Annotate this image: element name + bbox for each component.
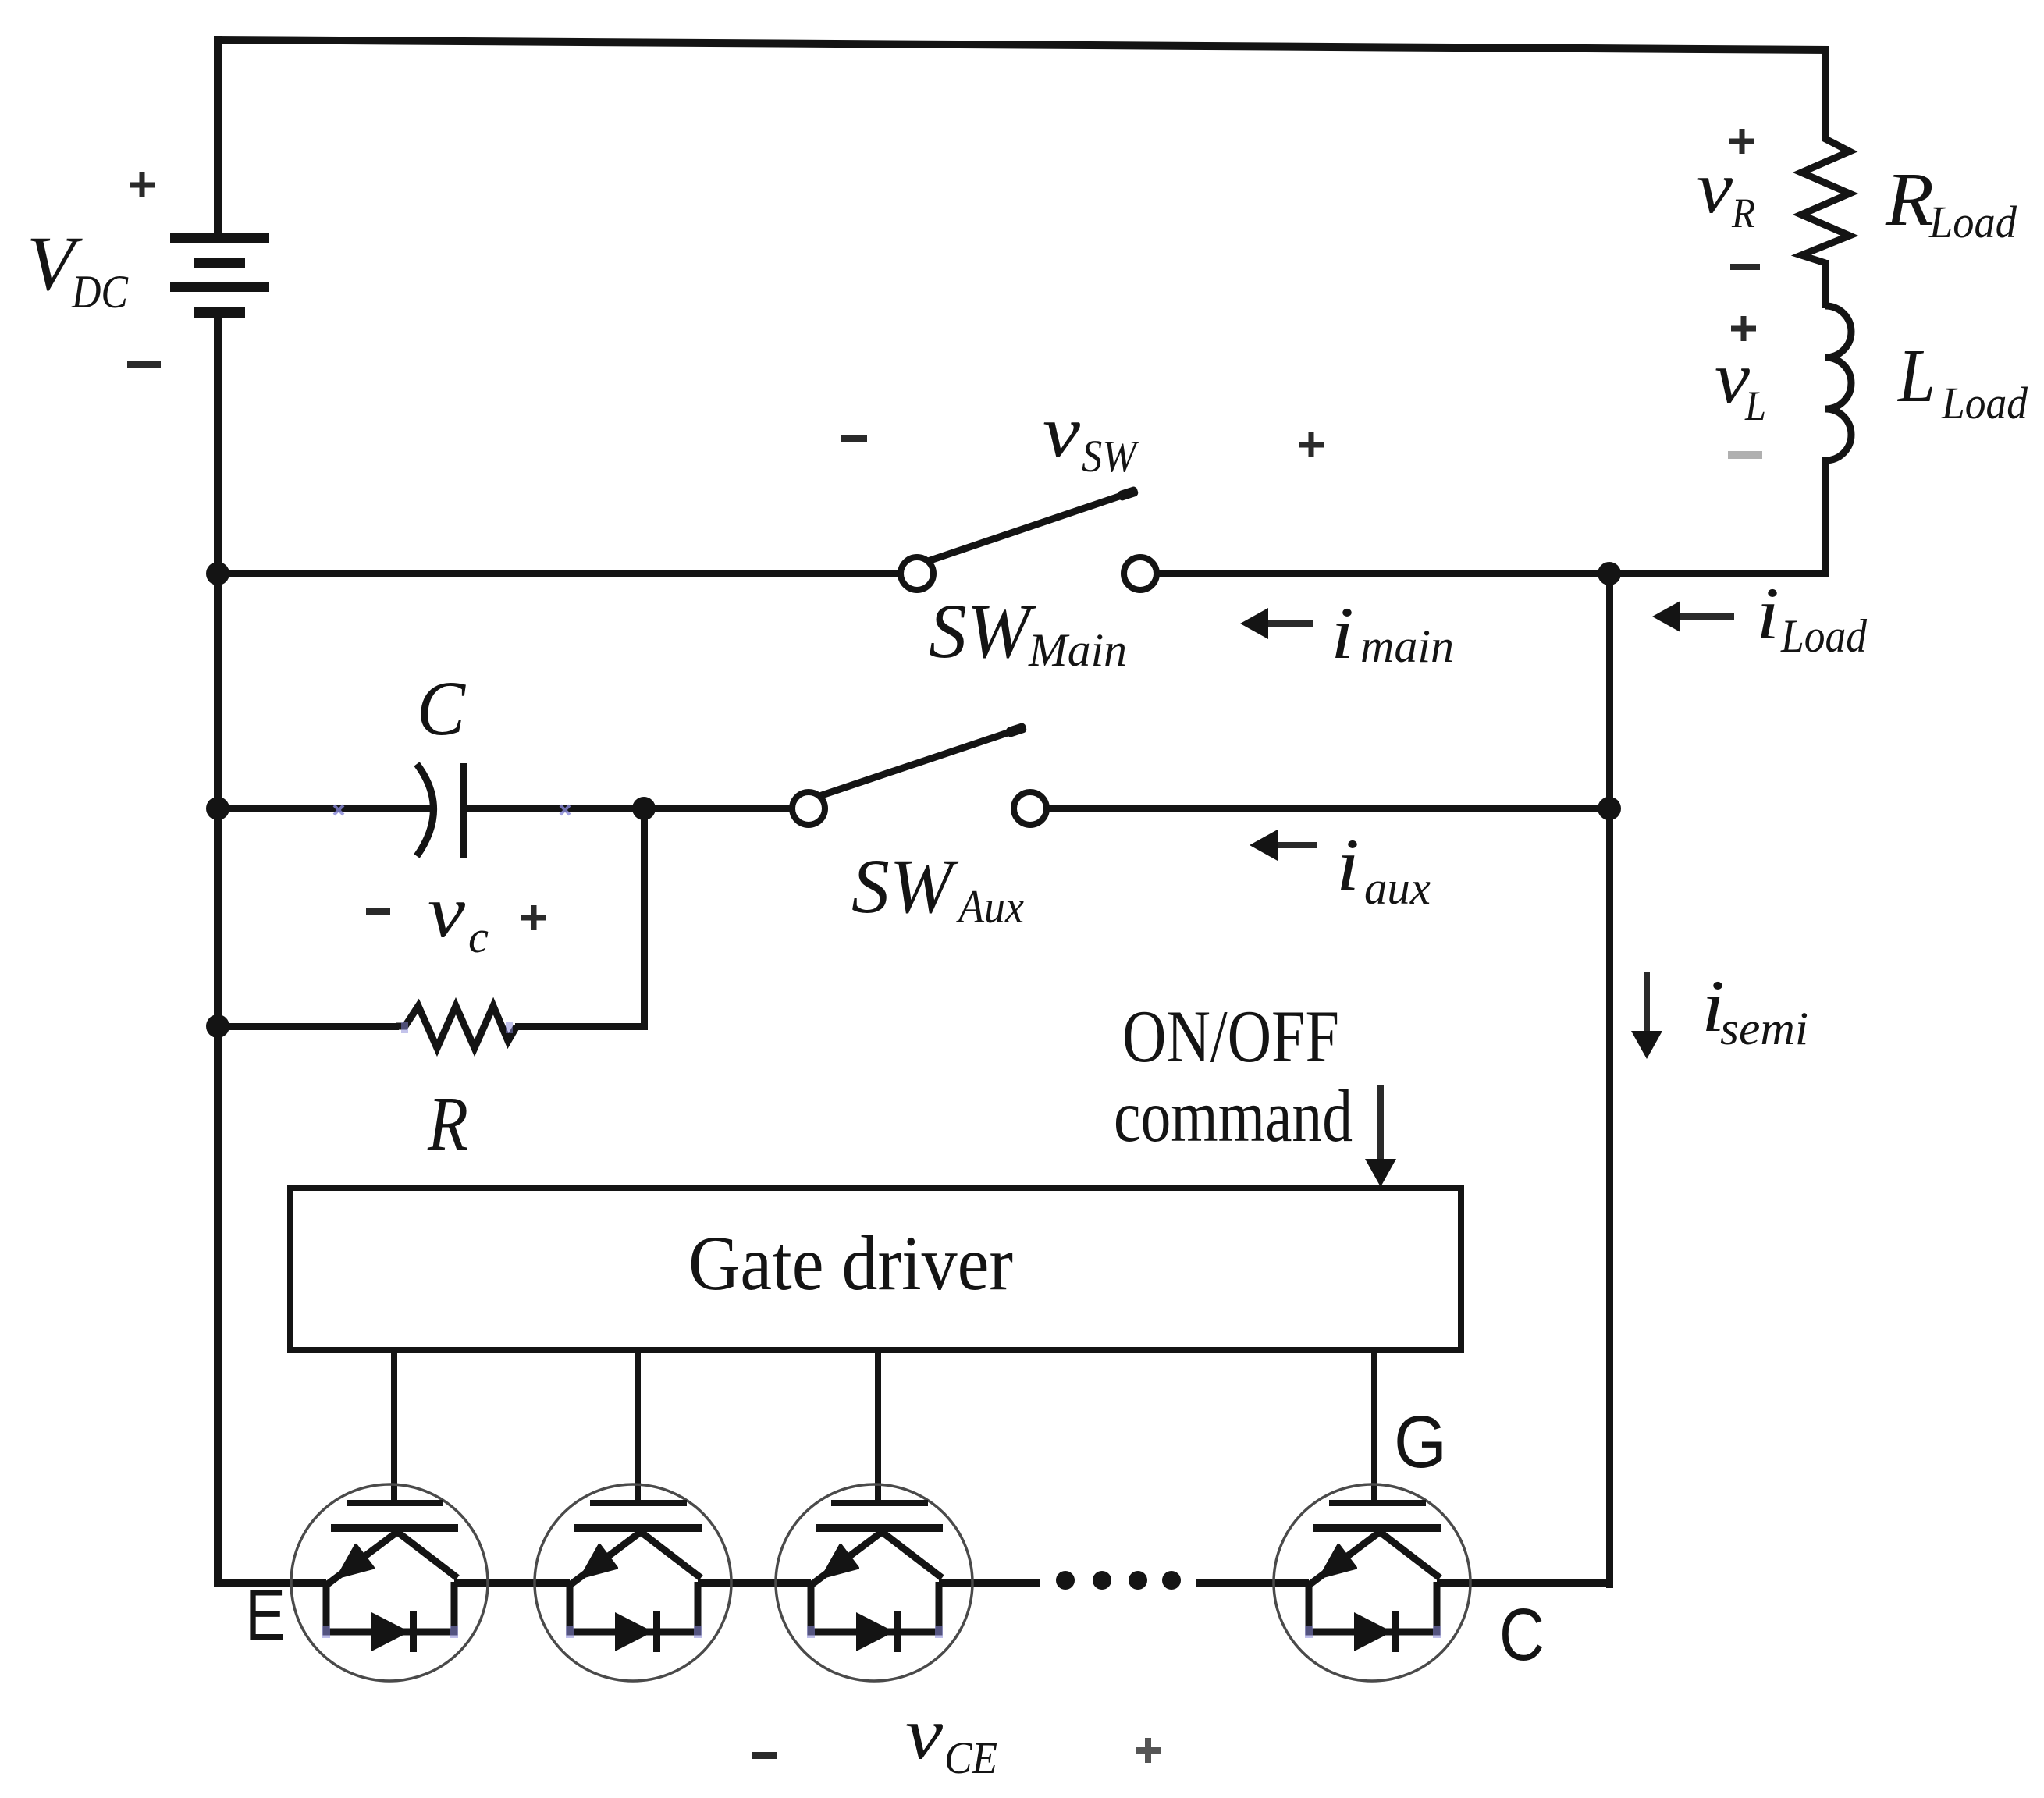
wire cap row left bbox=[214, 805, 435, 812]
svg-text:Load: Load bbox=[1928, 197, 2017, 247]
wire right load drop bbox=[1822, 46, 1829, 137]
svg-text:i: i bbox=[1756, 572, 1779, 655]
switch SWMain bbox=[901, 485, 1157, 590]
svg-text:i: i bbox=[1336, 823, 1360, 906]
wire bottom rail segment 5 bbox=[1196, 1579, 1309, 1587]
svg-text:v: v bbox=[905, 1692, 944, 1775]
wire bottom rail segment 2 bbox=[454, 1579, 570, 1587]
svg-text:R: R bbox=[1731, 190, 1755, 236]
transistor Q4 bbox=[1274, 1484, 1470, 1681]
label plus vc bbox=[521, 905, 546, 930]
artifact mark R left lead bbox=[401, 1022, 408, 1033]
label minus vR bbox=[1730, 264, 1760, 270]
label minus vL bbox=[1728, 451, 1762, 459]
svg-text:CE: CE bbox=[944, 1732, 997, 1783]
wire bottom rail segment 3 bbox=[698, 1579, 811, 1587]
node junction SWMain-left bbox=[206, 562, 229, 585]
svg-text:SW: SW bbox=[1082, 431, 1139, 481]
resistor RLoad bbox=[1801, 133, 1850, 263]
wire right inner vertical bbox=[1606, 574, 1613, 1588]
wire SWMain row right segment bbox=[1158, 570, 1829, 577]
arrow isemi bbox=[1631, 972, 1662, 1059]
wire cap branch vertical bbox=[641, 808, 648, 1029]
wire bottom rail segment 4 bbox=[939, 1579, 1040, 1587]
label minus vCE bbox=[752, 1752, 777, 1759]
arrow ON/OFF command bbox=[1365, 1085, 1396, 1187]
svg-text:C: C bbox=[417, 665, 466, 752]
svg-text:Main: Main bbox=[1028, 624, 1127, 676]
node junction SWAux-right bbox=[1598, 797, 1621, 820]
wire gate lead 4 bbox=[1371, 1350, 1377, 1503]
svg-text:Load: Load bbox=[1941, 378, 2028, 428]
svg-text:v: v bbox=[1697, 146, 1733, 229]
svg-text:command: command bbox=[1114, 1075, 1353, 1157]
battery VDC bbox=[170, 233, 269, 318]
wire gate lead 3 bbox=[875, 1350, 881, 1503]
svg-text:C: C bbox=[1499, 1594, 1545, 1676]
svg-text:Gate driver: Gate driver bbox=[688, 1220, 1013, 1306]
wire LLoad bottom to corner bbox=[1822, 457, 1829, 577]
svg-text:Aux: Aux bbox=[955, 881, 1024, 933]
block Gate driver bbox=[290, 1188, 1461, 1350]
svg-text:R: R bbox=[427, 1080, 468, 1167]
node junction cap-left bbox=[206, 797, 229, 820]
label minus vSW bbox=[841, 435, 867, 442]
wire between RLoad and LLoad bbox=[1822, 260, 1829, 308]
svg-text:DC: DC bbox=[71, 266, 129, 318]
svg-text:aux: aux bbox=[1364, 862, 1431, 914]
mark x left of capacitor bbox=[334, 805, 343, 815]
wire left vertical (battery bottom to bottom rail) bbox=[214, 316, 222, 1583]
wire bottom rail segment 6 bbox=[1437, 1579, 1612, 1587]
svg-text:c: c bbox=[468, 911, 489, 962]
svg-text:Load: Load bbox=[1780, 610, 1868, 662]
resistor R bbox=[396, 1006, 517, 1048]
label plus vR bbox=[1729, 129, 1754, 154]
node junction cap-right bbox=[632, 797, 656, 820]
wire gate lead 1 bbox=[391, 1350, 397, 1503]
artifact mark R right lead bbox=[506, 1022, 513, 1033]
svg-text:SW: SW bbox=[929, 588, 1036, 674]
switch SWAux bbox=[792, 722, 1047, 825]
svg-text:v: v bbox=[1043, 390, 1081, 473]
svg-text:L: L bbox=[1896, 334, 1936, 418]
arrow imain bbox=[1240, 608, 1313, 639]
svg-text:semi: semi bbox=[1720, 1003, 1808, 1054]
transistor Q2 bbox=[535, 1484, 731, 1681]
node junction SWMain-right bbox=[1598, 562, 1621, 585]
wire left vertical (battery top lead) bbox=[214, 36, 222, 236]
svg-text:v: v bbox=[428, 870, 466, 953]
label plus vSW bbox=[1299, 432, 1324, 457]
transistor Q1 bbox=[291, 1484, 488, 1681]
label plus vCE bbox=[1136, 1738, 1161, 1763]
inductor LLoad bbox=[1825, 306, 1851, 460]
wire R row left bbox=[214, 1023, 399, 1030]
arrow iLoad bbox=[1652, 601, 1734, 632]
svg-text:R: R bbox=[1885, 158, 1934, 242]
wire SWMain row left segment bbox=[214, 570, 901, 577]
label plus vL bbox=[1731, 316, 1756, 341]
transistor Q3 bbox=[776, 1484, 972, 1681]
svg-text:L: L bbox=[1744, 382, 1766, 429]
battery minus sign bbox=[127, 361, 161, 368]
capacitor C bbox=[417, 763, 467, 858]
svg-text:E: E bbox=[245, 1576, 286, 1655]
wire SWAux row right bbox=[1047, 805, 1612, 812]
svg-text:SW: SW bbox=[851, 843, 958, 929]
battery plus sign bbox=[130, 172, 155, 197]
svg-text:ON/OFF: ON/OFF bbox=[1122, 995, 1339, 1078]
svg-text:main: main bbox=[1360, 620, 1454, 672]
wire R row right bbox=[515, 1023, 648, 1030]
mark x right of capacitor bbox=[560, 805, 570, 815]
arrow iaux bbox=[1250, 830, 1317, 861]
wire cap row right bbox=[464, 805, 793, 812]
wire top bus bbox=[214, 36, 1829, 54]
dots ellipsis bbox=[1056, 1571, 1181, 1590]
svg-text:G: G bbox=[1394, 1401, 1447, 1484]
svg-text:i: i bbox=[1331, 592, 1354, 674]
label minus vc bbox=[366, 908, 390, 915]
wire bottom rail segment 1 bbox=[214, 1579, 326, 1587]
node junction R-left bbox=[206, 1014, 229, 1038]
wire gate lead 2 bbox=[635, 1350, 641, 1503]
